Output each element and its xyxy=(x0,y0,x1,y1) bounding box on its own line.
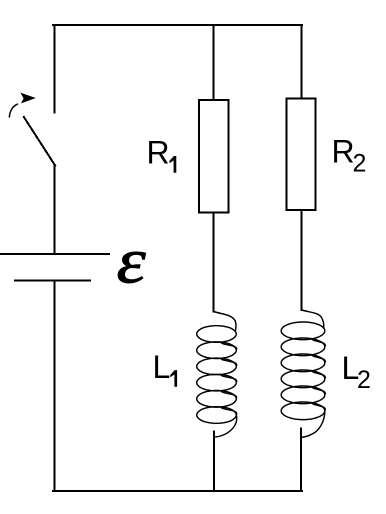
svg-text:2: 2 xyxy=(357,366,371,394)
svg-text:R: R xyxy=(147,135,170,171)
svg-text:ε: ε xyxy=(117,226,147,297)
svg-text:2: 2 xyxy=(353,150,367,178)
svg-text:L: L xyxy=(153,349,171,385)
svg-text:R: R xyxy=(332,134,355,170)
